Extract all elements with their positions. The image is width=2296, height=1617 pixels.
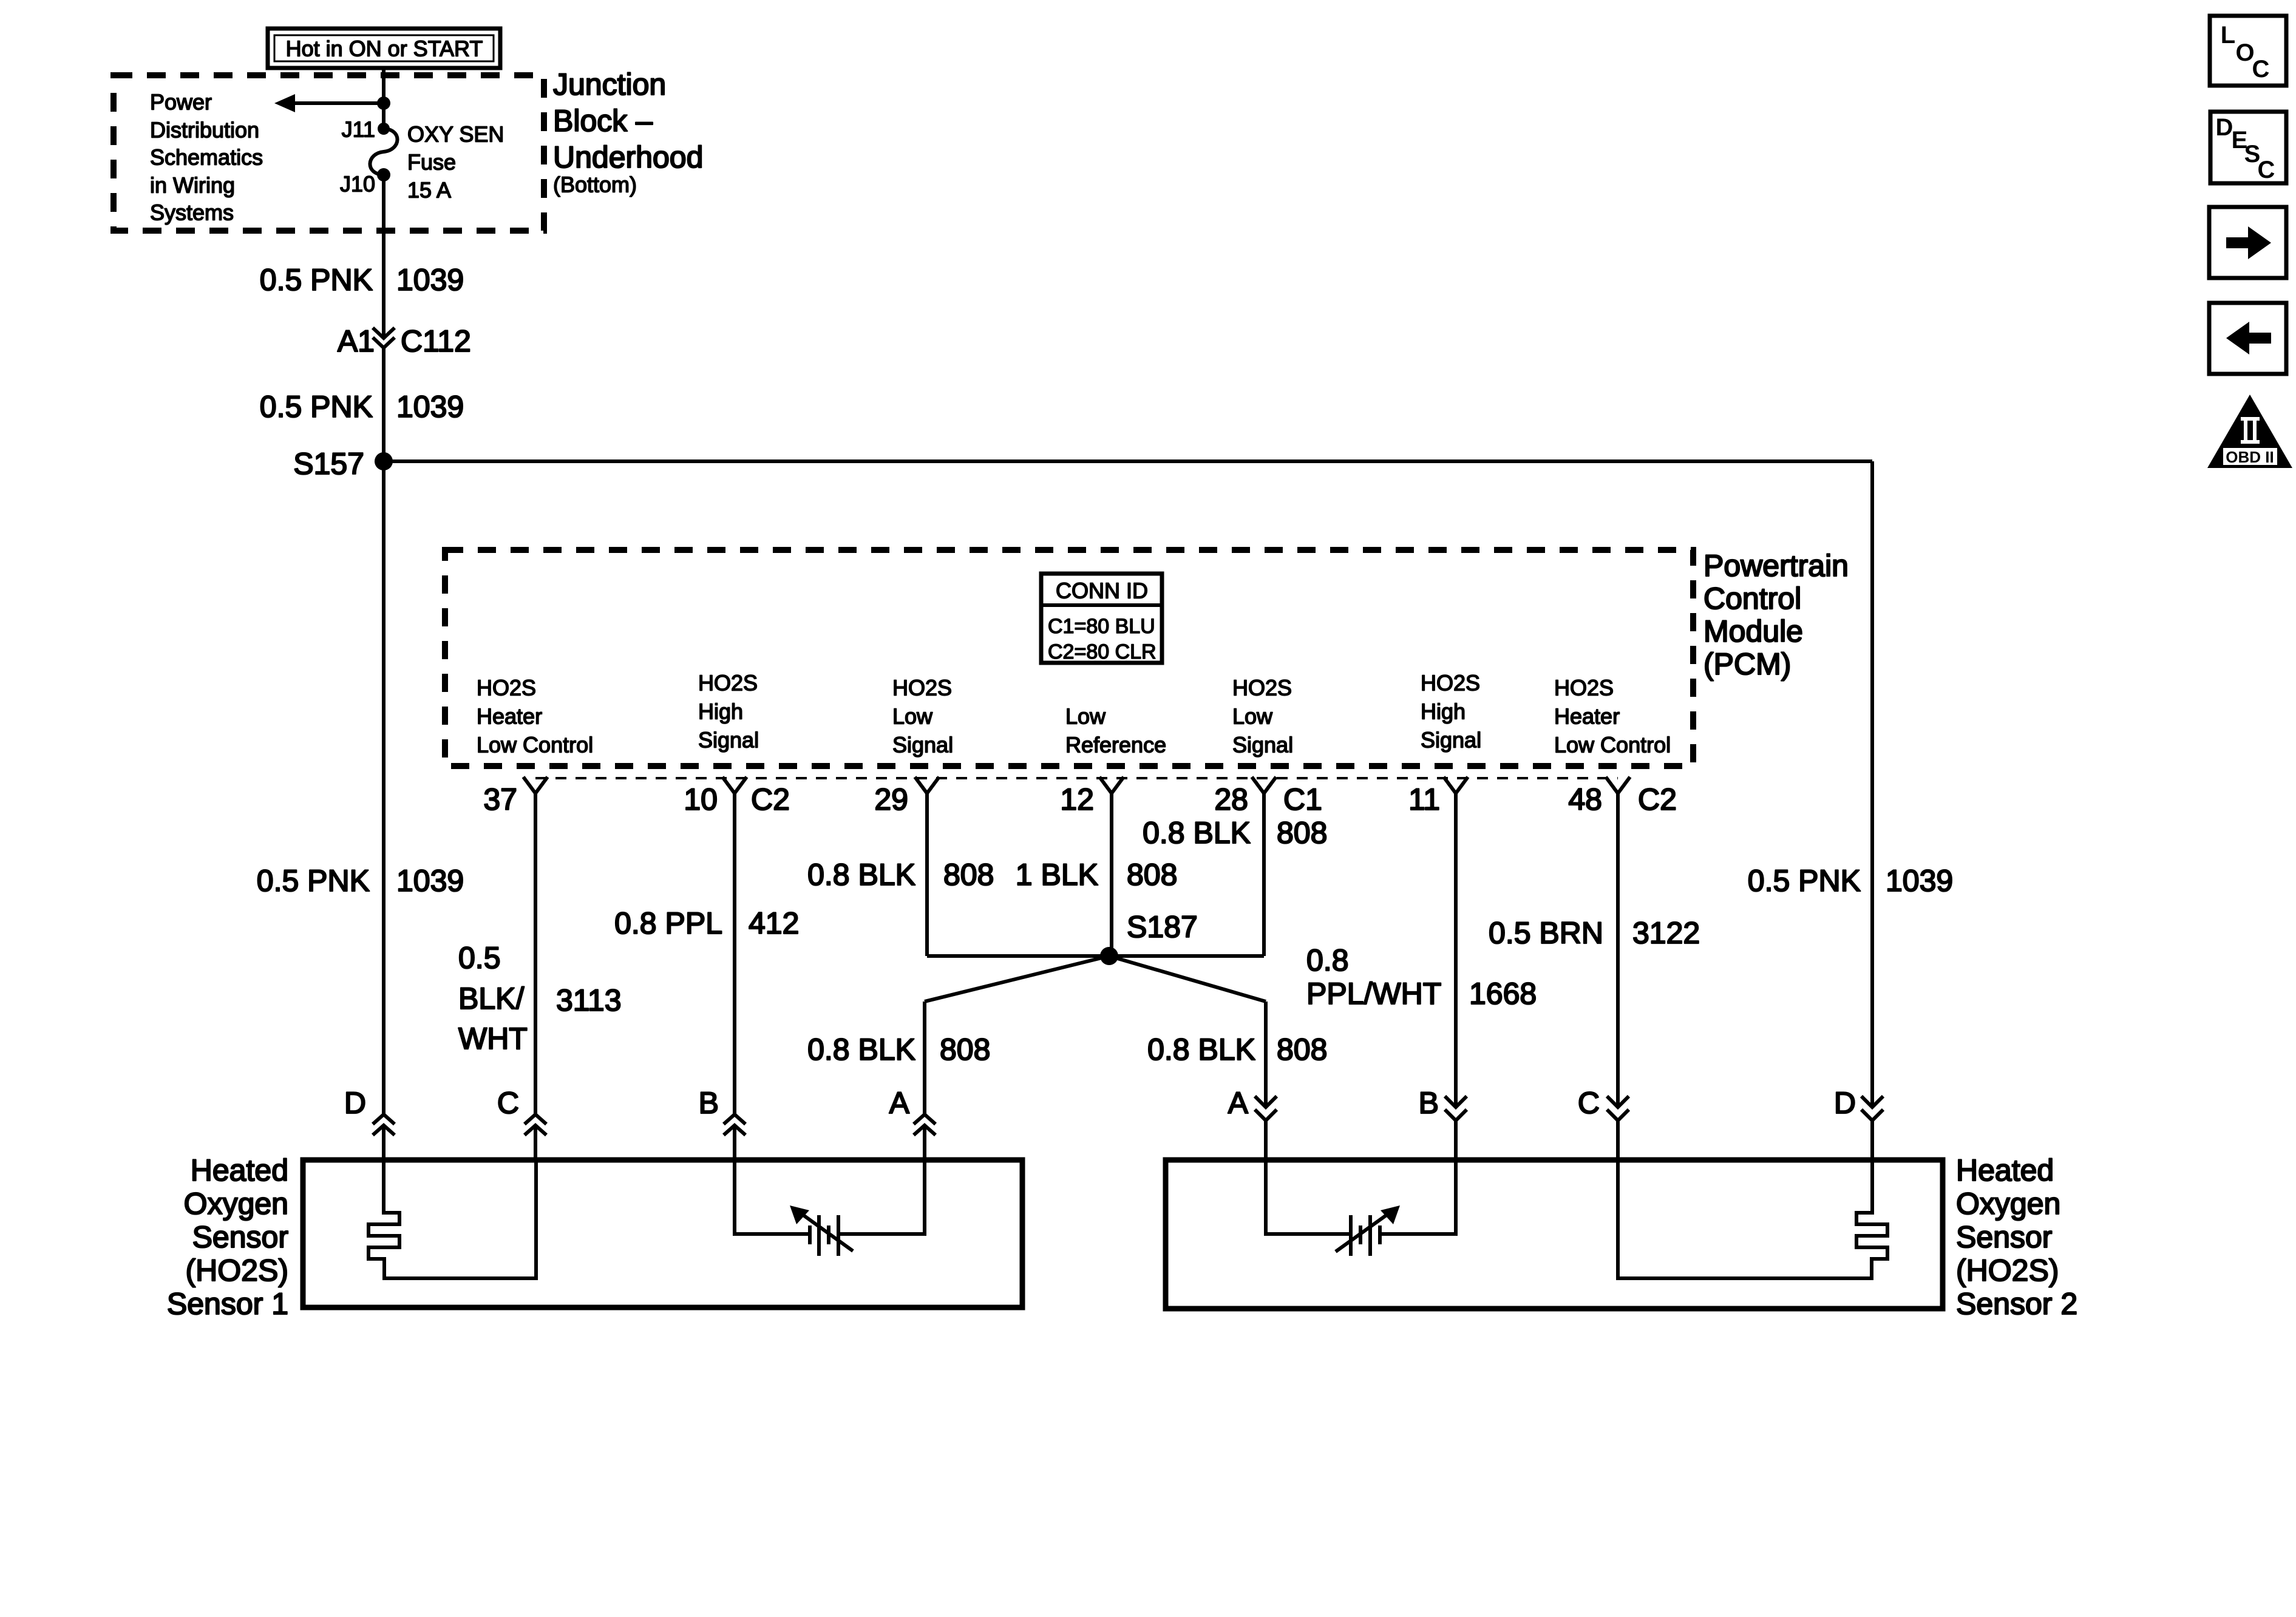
fuse F1 OXY SEN element: [370, 129, 397, 175]
sensor2 sense cell wire A: [1266, 1160, 1350, 1234]
svg-text:0.8 BLK: 0.8 BLK: [1147, 1032, 1255, 1066]
svg-text:10: 10: [684, 782, 718, 816]
svg-text:Oxygen: Oxygen: [1956, 1187, 2060, 1221]
pin 29 connector Y: [915, 777, 939, 793]
svg-text:C: C: [1578, 1086, 1600, 1120]
sensor1 pin A chevrons: [914, 1114, 936, 1135]
wire pin 28 horizontal to S187: [1109, 954, 1264, 958]
svg-text:Sensor: Sensor: [192, 1220, 288, 1254]
svg-text:(Bottom): (Bottom): [553, 172, 637, 197]
svg-text:C1=80 BLU: C1=80 BLU: [1048, 615, 1155, 638]
svg-text:HO2S: HO2S: [1232, 676, 1292, 700]
svg-text:A: A: [889, 1086, 910, 1120]
svg-text:PPL/WHT: PPL/WHT: [1306, 977, 1441, 1011]
wire pin 37 to sensor1 pin C: [534, 793, 537, 1114]
junction dot at arrow: [377, 97, 390, 110]
svg-text:0.8 BLK: 0.8 BLK: [807, 1032, 915, 1066]
svg-text:Schematics: Schematics: [150, 145, 263, 170]
svg-text:Reference: Reference: [1065, 733, 1166, 758]
svg-text:37: 37: [483, 782, 517, 816]
svg-text:Heater: Heater: [477, 704, 542, 729]
svg-text:0.5 PNK: 0.5 PNK: [1748, 864, 1861, 898]
svg-text:B: B: [1419, 1086, 1439, 1120]
svg-text:Powertrain: Powertrain: [1703, 549, 1849, 583]
sensor2 pin B chevrons: [1445, 1096, 1467, 1120]
pin 11 connector Y: [1444, 777, 1468, 793]
wire down to sensor2 pin A: [1264, 1002, 1268, 1107]
svg-text:0.5: 0.5: [458, 941, 501, 975]
svg-text:48: 48: [1568, 782, 1602, 816]
sensor2 variable arrowhead: [1381, 1205, 1400, 1224]
svg-text:D: D: [344, 1086, 366, 1120]
icon OBD II triangle: [2207, 395, 2292, 468]
svg-text:Systems: Systems: [150, 200, 234, 225]
wire S157 horizontal to right side: [384, 459, 1872, 463]
svg-text:HO2S: HO2S: [1554, 676, 1614, 700]
svg-text:11: 11: [1408, 782, 1440, 816]
svg-text:412: 412: [749, 906, 799, 940]
OBD II pillar top bar: [2241, 417, 2260, 421]
connector C112 chevrons: [373, 328, 395, 348]
node J11 dot: [378, 123, 390, 135]
svg-text:B: B: [699, 1086, 719, 1120]
svg-text:Signal: Signal: [1232, 733, 1293, 758]
sensor1 pin D chevrons: [373, 1114, 395, 1135]
sensor1 pin B chevrons: [724, 1114, 746, 1135]
sensor1 cell bar short 1: [808, 1225, 812, 1244]
svg-text:(HO2S): (HO2S): [1956, 1253, 2059, 1287]
OBD II pillar column 1: [2244, 421, 2247, 440]
sensor1 sense cell wire B: [735, 1160, 810, 1234]
fuse box "Hot in ON or START" outer border: [268, 29, 500, 68]
svg-text:OBD II: OBD II: [2226, 448, 2274, 466]
arrowhead power distribution: [274, 94, 295, 112]
OBD II label plate: [2223, 448, 2277, 465]
svg-text:15 A: 15 A: [407, 178, 451, 203]
wire pin C into sensor2: [1616, 1120, 1620, 1162]
svg-text:Low Control: Low Control: [477, 733, 593, 758]
svg-text:0.5 PNK: 0.5 PNK: [257, 864, 370, 898]
HO2S sensor 2 box: [1166, 1160, 1943, 1309]
wire pin 29 horizontal to S187: [927, 954, 1109, 958]
CONN ID header separator: [1041, 603, 1162, 607]
svg-text:C: C: [2252, 56, 2270, 83]
svg-text:C112: C112: [401, 324, 471, 358]
svg-text:Low: Low: [892, 704, 933, 729]
junction block underhood dashed box: [114, 75, 544, 231]
wire pin A into sensor1: [923, 1125, 926, 1162]
node J10 dot: [377, 168, 390, 181]
fuse box "Hot in ON or START" inner border: [274, 35, 494, 61]
wire from Hot box to J11: [382, 68, 385, 129]
svg-text:Module: Module: [1703, 614, 1803, 648]
wire pin 11 to sensor2 pin B: [1454, 793, 1458, 1107]
wire arrow to power distribution: [290, 101, 384, 105]
svg-text:Signal: Signal: [892, 733, 953, 758]
PCM dashed box: [445, 550, 1693, 766]
svg-text:S187: S187: [1127, 910, 1198, 944]
wire S187 diagonal right: [1109, 956, 1266, 1002]
svg-text:in Wiring: in Wiring: [150, 173, 235, 198]
svg-text:OXY SEN: OXY SEN: [407, 122, 504, 147]
svg-text:Low: Low: [1232, 704, 1273, 729]
svg-text:Low Control: Low Control: [1554, 733, 1671, 758]
pin 12 connector Y: [1099, 777, 1124, 793]
sensor1 cell bar short 3: [827, 1225, 830, 1244]
svg-text:1039: 1039: [396, 864, 464, 898]
svg-text:Fuse: Fuse: [407, 150, 456, 175]
svg-text:WHT: WHT: [458, 1022, 528, 1056]
svg-text:1 BLK: 1 BLK: [1016, 858, 1098, 892]
sensor2 cell wire B: [1382, 1160, 1456, 1234]
svg-text:28: 28: [1214, 782, 1248, 816]
splice S187 dot: [1100, 947, 1118, 965]
svg-text:CONN ID: CONN ID: [1056, 578, 1148, 603]
sensor2 variable arrow: [1336, 1212, 1391, 1252]
sensor2 pin C chevrons: [1607, 1096, 1629, 1120]
svg-text:Oxygen: Oxygen: [184, 1187, 288, 1221]
svg-text:0.5 PNK: 0.5 PNK: [260, 263, 373, 297]
svg-text:1039: 1039: [396, 390, 464, 424]
svg-text:C: C: [497, 1086, 519, 1120]
CONN ID table border: [1041, 574, 1162, 663]
svg-text:0.8 PPL: 0.8 PPL: [614, 906, 722, 940]
wire S157 down to HO2S sensor 1 pin D: [382, 461, 385, 1114]
icon DESC box: [2210, 112, 2286, 183]
svg-text:12: 12: [1060, 782, 1094, 816]
svg-text:Sensor: Sensor: [1956, 1220, 2052, 1254]
OBD II pillar bottom bar: [2241, 440, 2260, 444]
svg-text:A1: A1: [338, 324, 375, 358]
svg-text:C: C: [2258, 157, 2275, 183]
wire pin 10 to sensor1 pin B: [733, 793, 736, 1114]
sensor2 cell bar short 2: [1359, 1225, 1362, 1244]
svg-text:Distribution: Distribution: [150, 118, 259, 143]
sensor1 cell wire A: [840, 1160, 925, 1234]
svg-text:D: D: [1834, 1086, 1856, 1120]
svg-text:0.8 BLK: 0.8 BLK: [1143, 816, 1251, 850]
sensor2 cell bar tall 3: [1368, 1215, 1372, 1256]
svg-text:C1: C1: [1283, 782, 1322, 816]
wire J10 down to C112: [382, 175, 385, 338]
svg-text:HO2S: HO2S: [698, 671, 758, 696]
wire pin C into sensor1: [534, 1125, 537, 1162]
svg-text:S157: S157: [293, 447, 364, 481]
svg-text:L: L: [2221, 22, 2235, 49]
svg-text:Underhood: Underhood: [553, 140, 703, 174]
svg-text:1039: 1039: [396, 263, 464, 297]
svg-text:808: 808: [1127, 858, 1177, 892]
svg-text:J10: J10: [340, 172, 375, 197]
HO2S sensor 1 box: [303, 1160, 1022, 1307]
svg-text:Hot in ON or START: Hot in ON or START: [286, 36, 483, 61]
pin 10 connector Y: [722, 777, 747, 793]
svg-text:Low: Low: [1065, 704, 1106, 729]
sensor1 heater element: [369, 1160, 536, 1278]
svg-text:3122: 3122: [1632, 916, 1700, 950]
sensor2 heater element: [1618, 1160, 1887, 1278]
svg-text:C2: C2: [751, 782, 790, 816]
wire pin B into sensor2: [1454, 1120, 1458, 1162]
OBD II pillar column 2: [2253, 421, 2257, 440]
svg-text:C2=80 CLR: C2=80 CLR: [1048, 640, 1156, 663]
svg-text:808: 808: [940, 1032, 990, 1066]
svg-text:HO2S: HO2S: [1421, 671, 1480, 696]
sensor1 cell bar tall 4: [837, 1215, 840, 1256]
wire down to sensor1 pin A: [923, 1002, 926, 1114]
svg-text:808: 808: [1277, 816, 1327, 850]
wire pin 28 down: [1262, 793, 1266, 956]
svg-text:(HO2S): (HO2S): [186, 1253, 288, 1287]
wire pin D into sensor1: [382, 1125, 385, 1162]
svg-text:D: D: [2216, 114, 2233, 141]
svg-text:HO2S: HO2S: [892, 676, 952, 700]
svg-text:Block –: Block –: [553, 104, 653, 138]
sensor2 cell bar short 4: [1378, 1225, 1382, 1244]
svg-text:0.5 BRN: 0.5 BRN: [1489, 916, 1603, 950]
wire S187 diagonal left: [925, 956, 1109, 1002]
svg-text:0.8: 0.8: [1306, 943, 1349, 977]
icon left-arrow glyph: [2226, 322, 2271, 354]
svg-text:Sensor 1: Sensor 1: [167, 1287, 288, 1321]
svg-text:Heated: Heated: [1956, 1153, 2054, 1187]
sensor2 cell bar tall 1: [1349, 1215, 1353, 1256]
splice S157 dot: [375, 452, 393, 470]
sensor1 variable arrow: [798, 1212, 853, 1251]
wire pin A into sensor2: [1264, 1120, 1268, 1162]
svg-text:Junction: Junction: [553, 67, 666, 101]
svg-text:BLK/: BLK/: [458, 981, 525, 1015]
svg-text:Signal: Signal: [1421, 728, 1481, 753]
wire pin D into sensor2: [1870, 1120, 1874, 1162]
wire pin 48 to sensor2 pin C: [1616, 793, 1620, 1107]
svg-text:J11: J11: [342, 117, 375, 142]
wire pin 29 down: [925, 793, 929, 956]
svg-text:Heated: Heated: [191, 1153, 288, 1187]
wire pin B into sensor1: [733, 1125, 736, 1162]
svg-text:808: 808: [1277, 1032, 1327, 1066]
pin 37 connector Y: [523, 777, 548, 793]
svg-text:High: High: [1421, 699, 1466, 724]
sensor1 variable arrowhead: [790, 1205, 809, 1224]
svg-text:29: 29: [874, 782, 908, 816]
svg-text:1668: 1668: [1469, 977, 1537, 1011]
wire right side down to HO2S sensor 2 pin D: [1870, 461, 1874, 1107]
PCM connector thin dashed line: [535, 777, 1618, 779]
svg-text:3113: 3113: [556, 983, 622, 1017]
sensor2 pin A chevrons: [1255, 1096, 1277, 1120]
pin 28 connector Y: [1252, 777, 1276, 793]
wire C112 down to S157: [382, 348, 385, 461]
svg-text:High: High: [698, 699, 743, 724]
wire pin 12 down to S187: [1110, 793, 1113, 956]
svg-text:Power: Power: [150, 90, 212, 115]
svg-text:Control: Control: [1703, 581, 1801, 615]
svg-text:0.8 BLK: 0.8 BLK: [807, 858, 915, 892]
svg-text:0.5 PNK: 0.5 PNK: [260, 390, 373, 424]
svg-text:(PCM): (PCM): [1703, 647, 1791, 681]
svg-text:A: A: [1228, 1086, 1249, 1120]
svg-text:Heater: Heater: [1554, 704, 1620, 729]
icon right-arrow box: [2209, 207, 2286, 278]
icon left-arrow box: [2209, 303, 2286, 374]
sensor1 cell bar tall 2: [817, 1215, 821, 1256]
icon LOC box: [2210, 16, 2286, 86]
svg-text:HO2S: HO2S: [477, 676, 536, 700]
svg-text:Sensor 2: Sensor 2: [1956, 1287, 2077, 1321]
svg-text:Signal: Signal: [698, 728, 759, 753]
pin 48 connector Y: [1606, 777, 1630, 793]
sensor1 pin C chevrons: [525, 1114, 546, 1135]
svg-text:C2: C2: [1638, 782, 1677, 816]
svg-text:1039: 1039: [1886, 864, 1953, 898]
svg-text:808: 808: [943, 858, 994, 892]
icon right-arrow glyph: [2226, 226, 2271, 259]
sensor2 pin D chevrons: [1861, 1096, 1883, 1120]
